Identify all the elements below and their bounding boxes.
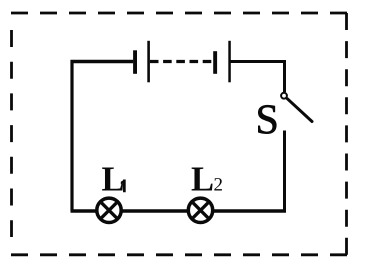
svg-text:2: 2	[214, 175, 224, 196]
wire right upper to switch	[283, 60, 286, 92]
wire right lower	[283, 131, 286, 212]
lamp L2	[188, 198, 212, 222]
wire top right	[231, 60, 285, 63]
wire left side	[70, 60, 73, 211]
dashed frame	[11, 13, 347, 255]
svg-text:L: L	[191, 161, 214, 199]
svg-text:L: L	[102, 161, 125, 199]
lamp L1	[97, 198, 121, 222]
wire dashed between cells	[150, 60, 213, 63]
switch S blade (open)	[287, 99, 312, 122]
svg-text:S: S	[256, 98, 279, 144]
wire top left	[71, 60, 134, 64]
battery B1 long plate (positive)	[147, 41, 150, 83]
battery B1 short plate (negative)	[133, 50, 137, 74]
battery B2 long plate (positive)	[228, 41, 231, 83]
battery B2 short plate (negative)	[213, 51, 217, 74]
wire bottom	[71, 209, 287, 212]
switch S pivot contact	[281, 93, 287, 99]
